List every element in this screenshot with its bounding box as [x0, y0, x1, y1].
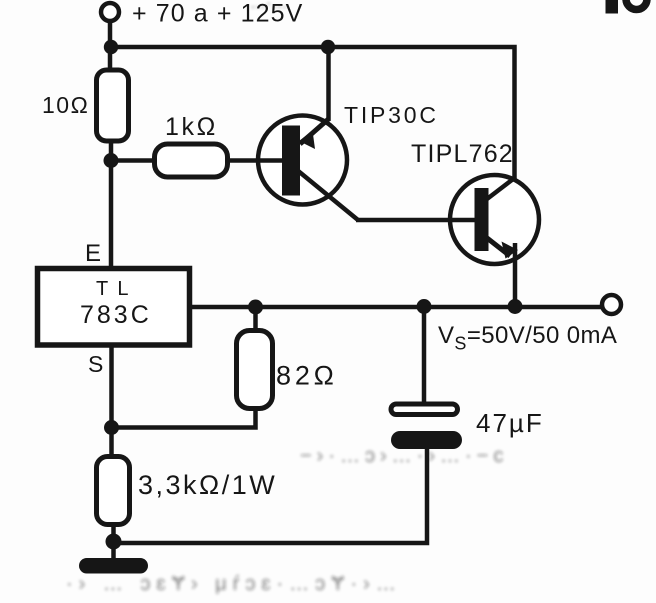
svg-text:S: S [88, 351, 103, 377]
resistor R3 82 ohm [237, 331, 273, 409]
svg-text:1kΩ: 1kΩ [165, 113, 218, 141]
svg-text:783C: 783C [80, 301, 152, 329]
input terminal [101, 3, 119, 21]
svg-text:82Ω: 82Ω [276, 361, 338, 391]
wire output bus [190, 305, 604, 310]
wire Q1 emitter drop [326, 47, 331, 121]
junction ground node [106, 534, 122, 550]
wire Q1 collector to Q2 base [356, 218, 477, 223]
junction top rail at Q1 [321, 40, 335, 54]
wire bus to R3 [253, 307, 258, 332]
wire R3 bottom [112, 408, 256, 428]
junction S node [104, 420, 119, 435]
svg-text:10Ω: 10Ω [42, 92, 89, 118]
wire input vertical [108, 22, 113, 72]
output terminal [602, 295, 621, 314]
IC U1 TL783C [38, 269, 190, 346]
junction below R1 [104, 153, 119, 168]
resistor R1 10 ohm [97, 70, 129, 141]
page number 18 (clipped) [606, 0, 648, 14]
svg-text:TIPL762: TIPL762 [411, 140, 514, 168]
junction input rail [104, 40, 118, 54]
wire junction to R2 [111, 158, 156, 163]
wire top rail [110, 47, 515, 181]
svg-text:·› … ɔɛɎ› μŕɔɛ·…ɔɎ·›…: ·› … ɔɛɎ› μŕɔɛ·…ɔɎ·›… [66, 573, 402, 595]
wire R2 to Q1 base [227, 158, 284, 163]
svg-text:TIP30C: TIP30C [344, 102, 439, 128]
wire TL783C S to R4 [109, 345, 114, 458]
junction bus at R3 [248, 300, 263, 315]
svg-text:3,3kΩ/1W: 3,3kΩ/1W [138, 470, 277, 500]
svg-text:E: E [85, 240, 101, 267]
svg-text:+ 70 a + 125V: + 70 a + 125V [132, 0, 303, 28]
capacitor C1 47uF [391, 307, 462, 449]
junction bus at C1 [417, 299, 432, 314]
wire R1 to TL783C [109, 141, 114, 270]
wire R4 to ground [111, 524, 116, 558]
svg-text:T L: T L [96, 278, 131, 300]
transistor Q2 TIPL762 [450, 175, 539, 307]
ground [79, 558, 148, 574]
wire ground rail to C1 [114, 446, 428, 543]
svg-text:47µF: 47µF [476, 408, 544, 438]
resistor R2 1k ohm [155, 144, 228, 177]
transistor Q1 TIP30C [258, 116, 358, 221]
junction bus at Q2 emitter [508, 299, 523, 314]
resistor R4 3.3k [97, 457, 130, 525]
